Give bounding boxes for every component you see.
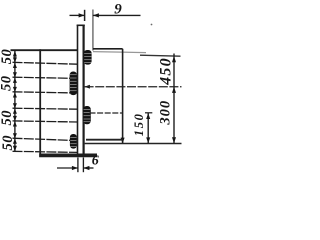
svg-text:50: 50 (0, 135, 16, 151)
left chain dimension line (14, 50, 16, 151)
svg-text:150: 150 (132, 112, 146, 136)
extension line left y77 (13, 77, 78, 78)
svg-text:300: 300 (157, 100, 173, 126)
450/300 dimension line V3 (173, 54, 175, 144)
extension line left y121 (13, 121, 78, 122)
svg-text:9: 9 (114, 2, 122, 18)
extension line left y91.8 (13, 92, 78, 93)
svg-text:450: 450 (157, 57, 174, 86)
right extension y113 segment a (90, 112, 123, 114)
stiffener strip: right line (82, 25, 84, 154)
plate front view: left edge (39, 49, 41, 157)
svg-text:50: 50 (0, 75, 15, 91)
V3 arrows (172, 56, 176, 143)
weld blob 3 right (83, 106, 91, 124)
right extension y86.7 (85, 86, 182, 88)
svg-text:6: 6 (92, 154, 99, 169)
jogged extension: horizontal at y48.8 (93, 48, 123, 50)
bottom 6 dim: extension lines (78, 158, 84, 173)
right extension y113 segment b (145, 112, 152, 114)
extension line left y151 (13, 151, 78, 152)
extension line left y138 (13, 138, 78, 140)
jogged extension: vertical V1 (122, 49, 124, 144)
V2 arrows (146, 113, 150, 143)
stiffener strip: top cap (77, 24, 85, 26)
450 top extension line (140, 55, 181, 56)
right extension y139.7 (86, 139, 123, 141)
9 dimension line segments (70, 14, 141, 16)
right bottom extension y143.5 (85, 143, 182, 145)
extension line left y62 (13, 62, 78, 64)
svg-text:50: 50 (0, 110, 15, 126)
grey extension top right (93, 52, 146, 53)
6 dim line segments (57, 167, 94, 169)
V1 bottom arrow (121, 138, 125, 144)
grey guide vertical (92, 10, 94, 51)
plate front view: bottom edge (thick) (39, 153, 97, 157)
weld blob 2 left (70, 72, 77, 96)
stiffener strip: left line (77, 25, 79, 154)
plate front view: top edge (11, 49, 78, 51)
weld blob 1 right (84, 50, 92, 65)
left chain arrows (13, 51, 17, 151)
extension line left y108 (13, 108, 78, 109)
150 dimension line V2 (147, 113, 149, 143)
top 9 dimension: tick extension (84, 10, 86, 21)
stray scan speck (151, 24, 153, 26)
weld blob 4 left (70, 134, 77, 149)
6 dim arrows (72, 166, 90, 170)
9 dim arrows (79, 13, 99, 17)
svg-text:50: 50 (0, 49, 15, 65)
arrow at strip on y86.7 extension (84, 85, 90, 89)
